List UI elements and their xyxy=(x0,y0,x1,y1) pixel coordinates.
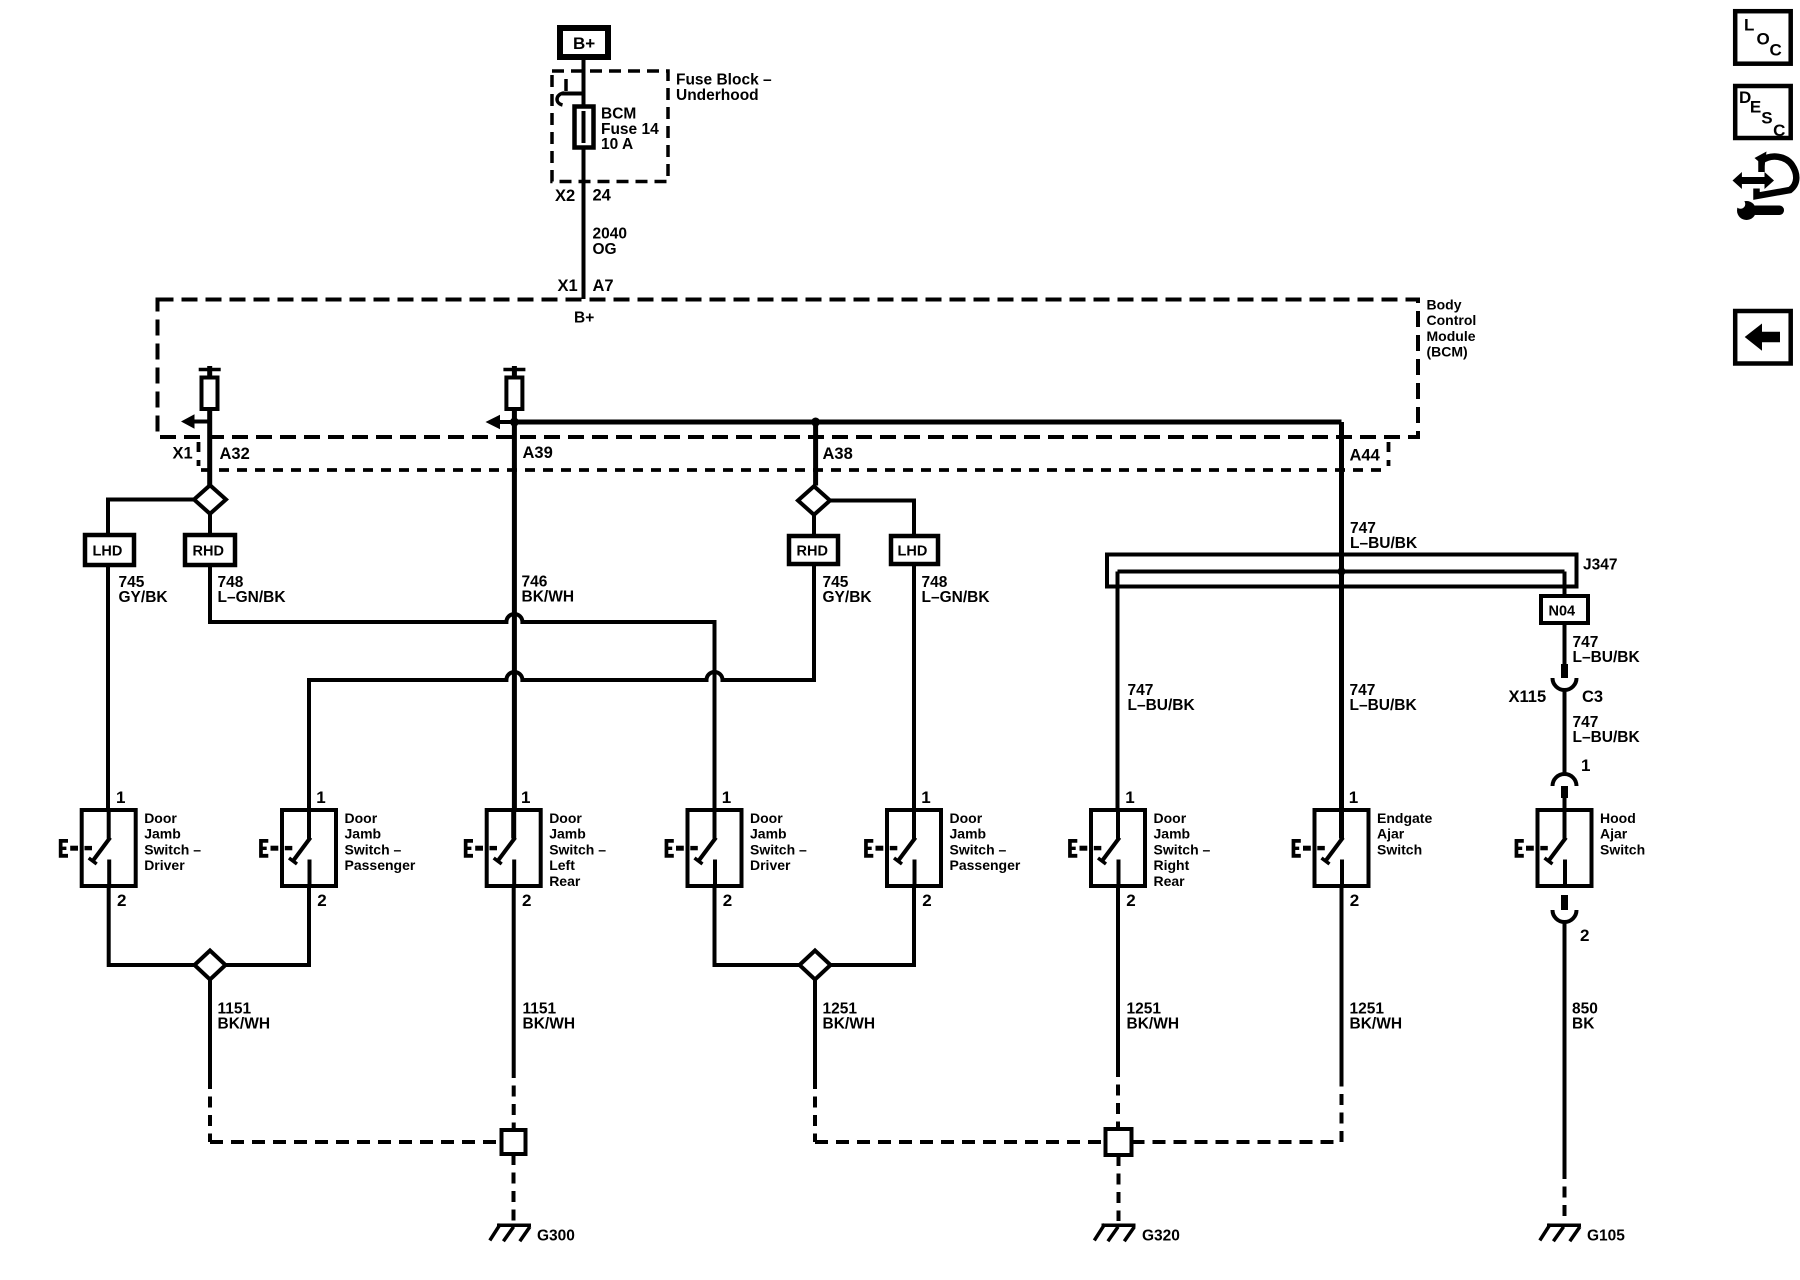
svg-text:G320: G320 xyxy=(1142,1228,1180,1245)
svg-text:Underhood: Underhood xyxy=(676,87,759,104)
svg-text:2: 2 xyxy=(1580,926,1589,945)
svg-text:L–BU/BK: L–BU/BK xyxy=(1350,697,1418,714)
svg-text:J347: J347 xyxy=(1583,557,1617,574)
svg-text:1: 1 xyxy=(521,788,530,807)
svg-text:1: 1 xyxy=(1581,756,1590,775)
svg-text:L–GN/BK: L–GN/BK xyxy=(218,589,287,606)
svg-text:C: C xyxy=(1770,41,1782,60)
svg-text:L–BU/BK: L–BU/BK xyxy=(1350,535,1418,552)
svg-text:Switch –: Switch – xyxy=(345,841,402,857)
svg-text:1: 1 xyxy=(316,788,325,807)
svg-text:2: 2 xyxy=(522,891,531,910)
svg-text:O: O xyxy=(1757,30,1770,49)
svg-text:Switch –: Switch – xyxy=(549,841,606,857)
svg-text:(BCM): (BCM) xyxy=(1427,344,1468,360)
svg-text:A44: A44 xyxy=(1350,447,1381,465)
svg-text:Hood: Hood xyxy=(1600,810,1636,826)
svg-text:BK/WH: BK/WH xyxy=(522,589,575,606)
svg-text:G105: G105 xyxy=(1587,1228,1625,1245)
svg-text:Body: Body xyxy=(1427,297,1462,313)
svg-text:Ajar: Ajar xyxy=(1377,826,1405,842)
svg-text:A38: A38 xyxy=(823,445,853,463)
svg-text:Switch –: Switch – xyxy=(950,841,1007,857)
svg-text:Driver: Driver xyxy=(144,857,185,873)
svg-text:GY/BK: GY/BK xyxy=(823,589,873,606)
svg-text:L–GN/BK: L–GN/BK xyxy=(922,589,991,606)
svg-text:BK/WH: BK/WH xyxy=(1350,1016,1403,1033)
svg-text:BK: BK xyxy=(1572,1016,1595,1033)
svg-text:BK/WH: BK/WH xyxy=(1127,1016,1180,1033)
svg-text:LHD: LHD xyxy=(898,544,928,560)
svg-text:Switch: Switch xyxy=(1377,841,1422,857)
svg-text:A7: A7 xyxy=(593,277,614,295)
svg-text:S: S xyxy=(1761,109,1772,128)
svg-text:1: 1 xyxy=(921,788,930,807)
svg-text:A32: A32 xyxy=(220,445,250,463)
svg-text:1: 1 xyxy=(116,788,125,807)
svg-text:2: 2 xyxy=(723,891,732,910)
svg-text:Endgate: Endgate xyxy=(1377,810,1432,826)
svg-text:X1: X1 xyxy=(558,277,578,295)
svg-text:Right: Right xyxy=(1154,857,1190,873)
svg-text:N04: N04 xyxy=(1549,604,1576,620)
svg-text:B+: B+ xyxy=(573,34,595,53)
svg-text:BK/WH: BK/WH xyxy=(218,1016,271,1033)
svg-text:Jamb: Jamb xyxy=(1154,826,1191,842)
svg-text:A39: A39 xyxy=(523,444,553,462)
svg-text:LHD: LHD xyxy=(93,544,123,560)
svg-text:Jamb: Jamb xyxy=(750,826,787,842)
svg-text:B+: B+ xyxy=(574,310,594,327)
svg-text:X2: X2 xyxy=(555,187,575,205)
svg-text:C3: C3 xyxy=(1582,688,1603,706)
svg-text:C: C xyxy=(1773,121,1785,140)
svg-text:Switch –: Switch – xyxy=(144,841,201,857)
svg-text:Control: Control xyxy=(1427,312,1477,328)
svg-text:L–BU/BK: L–BU/BK xyxy=(1573,649,1641,666)
svg-text:Door: Door xyxy=(345,810,378,826)
svg-text:L: L xyxy=(1744,16,1754,35)
svg-text:Passenger: Passenger xyxy=(345,857,416,873)
svg-text:L–BU/BK: L–BU/BK xyxy=(1573,729,1641,746)
svg-text:X115: X115 xyxy=(1509,688,1547,706)
svg-text:Door: Door xyxy=(144,810,177,826)
svg-text:Jamb: Jamb xyxy=(950,826,987,842)
svg-text:Jamb: Jamb xyxy=(345,826,382,842)
svg-text:Passenger: Passenger xyxy=(950,857,1021,873)
svg-text:L–BU/BK: L–BU/BK xyxy=(1128,697,1196,714)
svg-text:X1: X1 xyxy=(173,445,193,463)
svg-text:BK/WH: BK/WH xyxy=(823,1016,876,1033)
svg-text:Module: Module xyxy=(1427,328,1476,344)
svg-text:Rear: Rear xyxy=(549,873,581,889)
svg-text:RHD: RHD xyxy=(193,544,224,560)
svg-text:RHD: RHD xyxy=(797,544,828,560)
svg-text:Rear: Rear xyxy=(1154,873,1186,889)
svg-text:Jamb: Jamb xyxy=(144,826,181,842)
svg-text:Door: Door xyxy=(1154,810,1187,826)
svg-text:E: E xyxy=(1750,98,1761,117)
svg-text:1: 1 xyxy=(1125,788,1134,807)
svg-text:2: 2 xyxy=(117,891,126,910)
svg-text:Switch: Switch xyxy=(1600,841,1645,857)
svg-text:Door: Door xyxy=(950,810,983,826)
svg-text:Driver: Driver xyxy=(750,857,791,873)
svg-text:2: 2 xyxy=(1350,891,1359,910)
svg-text:GY/BK: GY/BK xyxy=(119,589,169,606)
svg-text:Door: Door xyxy=(750,810,783,826)
svg-text:2: 2 xyxy=(922,891,931,910)
svg-text:Jamb: Jamb xyxy=(549,826,586,842)
svg-text:Left: Left xyxy=(549,857,575,873)
svg-text:1: 1 xyxy=(722,788,731,807)
svg-text:10 A: 10 A xyxy=(601,136,633,153)
svg-text:1: 1 xyxy=(1349,788,1358,807)
svg-text:24: 24 xyxy=(593,187,612,205)
svg-text:BK/WH: BK/WH xyxy=(523,1016,576,1033)
svg-text:OG: OG xyxy=(593,241,617,258)
svg-text:Ajar: Ajar xyxy=(1600,826,1628,842)
svg-text:G300: G300 xyxy=(537,1228,575,1245)
svg-text:Door: Door xyxy=(549,810,582,826)
svg-text:2: 2 xyxy=(1126,891,1135,910)
svg-text:Switch –: Switch – xyxy=(1154,841,1211,857)
svg-text:Switch –: Switch – xyxy=(750,841,807,857)
svg-text:2: 2 xyxy=(317,891,326,910)
